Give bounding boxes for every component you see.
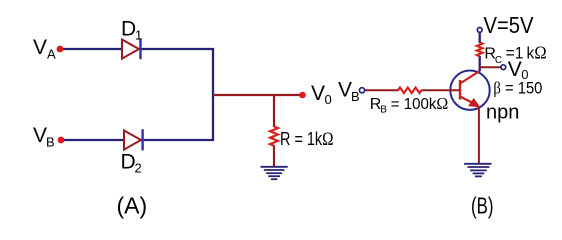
svg-text:V: V — [33, 36, 47, 59]
wire D2 to corner — [144, 139, 214, 141]
transistor base bar — [459, 80, 461, 100]
svg-text:V: V — [338, 79, 352, 102]
svg-text:B: B — [351, 89, 360, 104]
wire RB to base — [421, 89, 459, 91]
node V0 output dot — [299, 92, 306, 99]
svg-text:= 100kΩ: = 100kΩ — [391, 94, 449, 113]
diode D1 — [122, 40, 139, 59]
svg-text:npn: npn — [486, 102, 519, 124]
node V=5V terminal — [477, 28, 482, 33]
wire resistor to ground — [273, 146, 275, 167]
svg-text:B: B — [380, 105, 387, 116]
wire emitter to ground — [478, 107, 480, 164]
svg-text:β = 150: β = 150 — [493, 79, 542, 98]
wire VB to RB — [365, 89, 399, 91]
diode D1 cathode bar — [139, 38, 141, 59]
transistor emitter arrowhead — [469, 99, 480, 107]
svg-text:A: A — [47, 47, 56, 62]
ground (B) — [464, 164, 491, 177]
ground (A) — [261, 167, 288, 179]
svg-text:B: B — [46, 135, 55, 150]
svg-text:R = 1kΩ: R = 1kΩ — [280, 129, 334, 150]
wire collector up to RC — [479, 56, 481, 71]
wire output red — [213, 94, 300, 96]
diode D2 — [124, 131, 141, 150]
wire VA to D1 anode — [63, 48, 122, 50]
svg-text:(A): (A) — [117, 193, 148, 219]
svg-text:V=5V: V=5V — [484, 12, 535, 38]
wire collector junction to V0 terminal — [480, 66, 501, 68]
svg-text:V: V — [311, 82, 325, 105]
wire D1 to corner — [142, 48, 214, 50]
node VB terminal dot — [58, 137, 65, 144]
resistor R zigzag — [270, 127, 278, 146]
svg-text:D: D — [121, 18, 136, 41]
svg-text:1: 1 — [135, 28, 142, 43]
wire RC up to V terminal — [479, 32, 481, 42]
wire branch to resistor R — [273, 95, 275, 127]
transistor Q1 circle — [450, 71, 489, 110]
wire VB to D2 anode — [64, 139, 124, 141]
svg-text:C: C — [495, 55, 502, 66]
svg-text:V: V — [33, 124, 47, 147]
svg-text:V: V — [508, 58, 522, 81]
node VA terminal dot — [57, 46, 64, 53]
transistor emitter stroke — [460, 97, 474, 104]
svg-text:(B): (B) — [471, 193, 494, 219]
node VB input terminal — [359, 88, 364, 93]
wire vertical bus — [212, 48, 214, 141]
resistor RC zigzag — [477, 42, 483, 56]
diode D2 cathode bar — [141, 129, 143, 150]
svg-text:0: 0 — [325, 92, 332, 107]
resistor RB zigzag — [398, 88, 421, 94]
svg-text:D: D — [121, 151, 136, 174]
node V0 terminal (B) — [501, 65, 506, 70]
svg-text:2: 2 — [135, 161, 142, 176]
transistor collector stroke — [460, 71, 480, 84]
